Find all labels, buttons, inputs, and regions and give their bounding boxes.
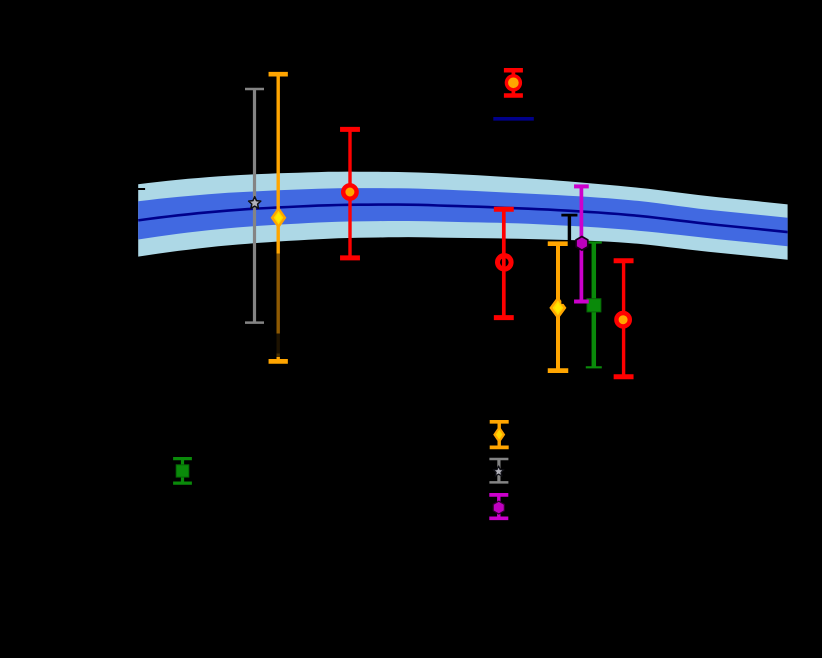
legend green square marker <box>176 465 189 477</box>
magenta data point error bar <box>574 186 589 301</box>
legend green square entry <box>173 459 192 484</box>
yellow diamond marker 2 <box>551 298 565 317</box>
yellow diamond marker 1 <box>272 209 285 227</box>
black data point error bar <box>561 215 577 302</box>
legend red circle entry <box>504 70 523 95</box>
red data point 3 error bar <box>614 261 634 377</box>
theory central line (navy) <box>138 205 787 233</box>
red circle marker 1 <box>343 185 356 198</box>
red data point 1 error bar <box>340 129 360 258</box>
orange data point 2 error bar <box>548 244 569 371</box>
legend yellow diamond entry <box>490 422 509 448</box>
theory band inner (royal blue) <box>138 188 787 246</box>
legend gray star entry <box>489 459 508 482</box>
red circle marker 3 <box>616 313 629 326</box>
magenta hexagon marker <box>576 237 588 251</box>
legend star marker <box>493 466 503 476</box>
green square marker <box>587 299 601 312</box>
theory band outer (light blue) <box>138 172 787 260</box>
red data point 2 error bar <box>494 209 514 317</box>
legend magenta hexagon entry <box>489 495 508 518</box>
legend red circle marker <box>506 76 520 90</box>
red open circle marker 2 <box>498 255 512 269</box>
gray star marker <box>249 197 261 209</box>
legend hexagon marker <box>493 501 504 514</box>
legend navy band line <box>493 117 534 121</box>
y-axis tick over band <box>138 188 145 190</box>
orange data point 1 error bar <box>269 74 288 361</box>
green data point error bar <box>586 243 602 368</box>
gray data point error bar <box>245 89 264 323</box>
legend diamond marker <box>495 428 504 442</box>
